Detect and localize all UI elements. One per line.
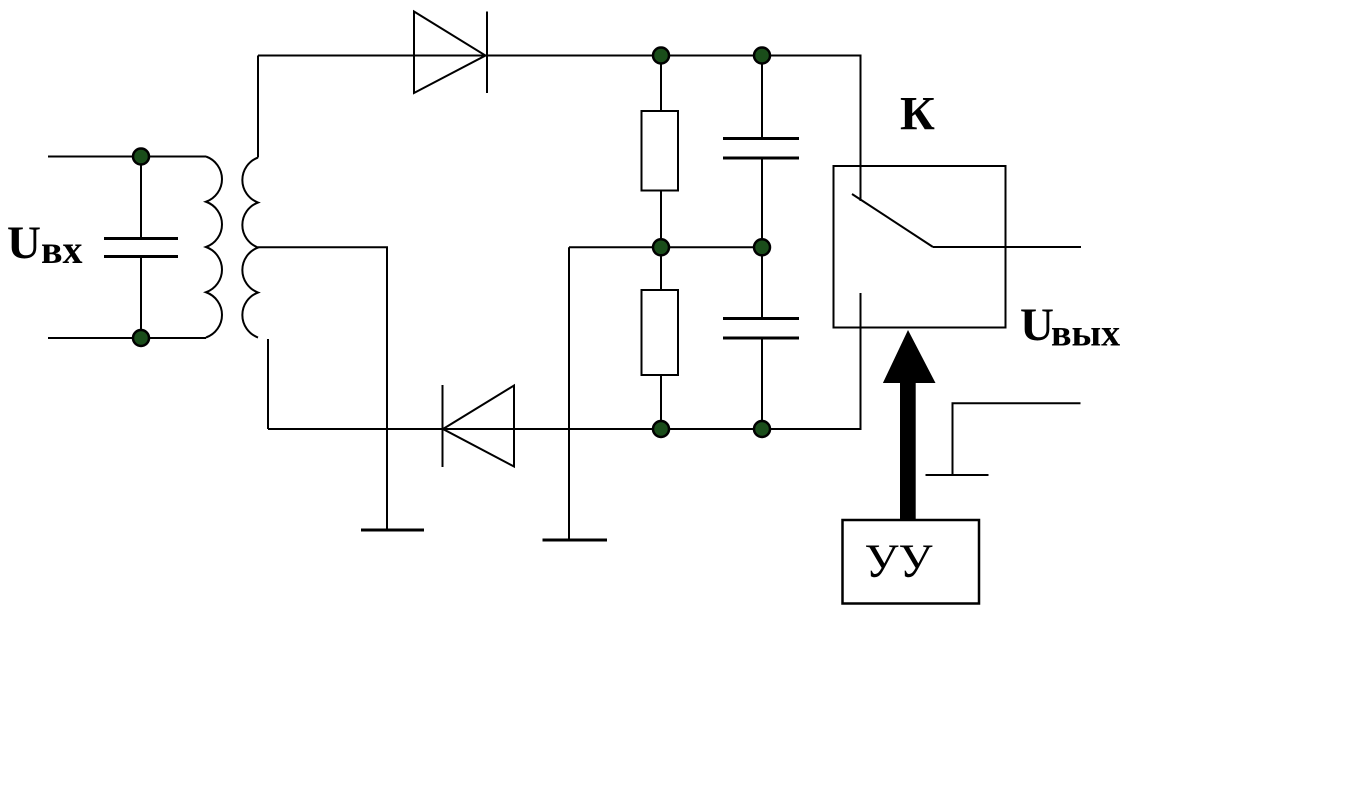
wire middle dot to R2 [660, 247, 662, 290]
resistor R1 [642, 111, 679, 191]
wire R1 to middle dot [660, 191, 662, 248]
node bottom rail R [653, 421, 669, 437]
wire R2 to bottom dot [660, 375, 662, 429]
node top rail R [653, 48, 669, 64]
control signal step waveform [926, 403, 1081, 475]
node input top [133, 149, 149, 165]
ground 2 [543, 539, 608, 542]
node bottom rail C [754, 421, 770, 437]
wire input top [48, 156, 206, 158]
transformer T1 secondary winding [242, 158, 258, 338]
wire secondary bottom riser [267, 339, 269, 429]
wire middle rail [569, 246, 762, 248]
capacitor C input (across U_vx) [104, 157, 178, 339]
wire middle to ground 2 [568, 247, 570, 540]
diode VD1 (top, anode left) [414, 12, 487, 94]
wire bottom rail with right corner up to switch fixed contact [268, 293, 861, 429]
ground 1 [361, 529, 424, 532]
node middle rail R [653, 239, 669, 255]
transformer T1 primary winding [206, 157, 222, 338]
node middle rail C [754, 239, 770, 255]
wire secondary top riser [257, 56, 259, 158]
switch K box [834, 166, 1006, 328]
wire output U_vyh [933, 246, 1081, 248]
capacitor C2 (bottom) [723, 247, 799, 429]
wire input bottom [48, 337, 206, 339]
wire top dot to R1 [660, 56, 662, 112]
diode VD2 (bottom, cathode left) [443, 385, 515, 467]
wire center tap to ground 1 [258, 247, 387, 530]
control arrow UU to K [883, 330, 936, 520]
svg-text:УУ: УУ [865, 535, 933, 588]
wire top rail with right corner down to switch contact [258, 56, 861, 202]
capacitor C1 (top) [723, 56, 799, 248]
switch blade [852, 194, 933, 247]
resistor R2 [642, 290, 679, 375]
control unit UU box [843, 520, 980, 604]
node top rail C [754, 48, 770, 64]
node input bottom [133, 330, 149, 346]
svg-text:К: К [900, 88, 935, 141]
